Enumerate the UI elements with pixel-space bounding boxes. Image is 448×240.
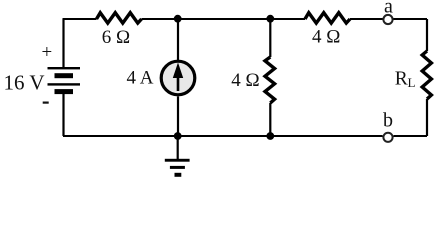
svg-text:4 A: 4 A — [127, 68, 154, 89]
svg-text:L: L — [408, 75, 416, 90]
svg-text:+: + — [42, 42, 53, 63]
svg-text:16 V: 16 V — [4, 70, 45, 94]
svg-text:a: a — [384, 0, 393, 18]
svg-text:4 Ω: 4 Ω — [312, 26, 340, 47]
svg-text:b: b — [383, 110, 393, 132]
svg-text:6 Ω: 6 Ω — [102, 27, 130, 48]
svg-text:4 Ω: 4 Ω — [231, 70, 259, 91]
svg-text:R: R — [395, 68, 408, 89]
